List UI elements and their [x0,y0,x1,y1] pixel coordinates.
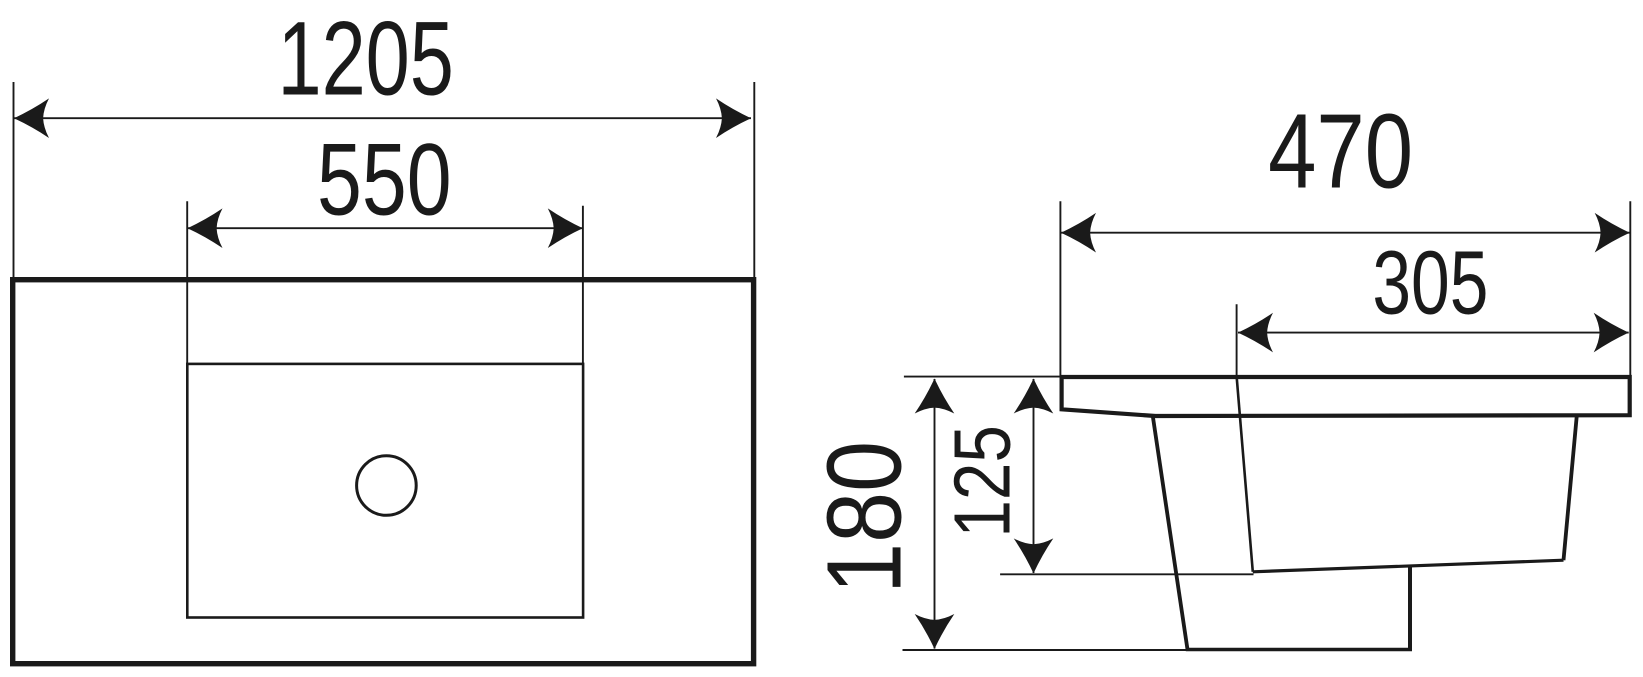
bowl inner left slanted line [1237,379,1253,572]
basin inner bowl rectangle (top view) [187,364,583,618]
bowl bottom line [1253,560,1564,572]
extension line left for dim 1205 [13,82,15,277]
dimension line 305 [1238,313,1629,353]
svg-text:550: 550 [317,122,452,237]
thin reference line at pedestal bottom level [903,649,1187,651]
extension line right for dim 550 [582,206,584,364]
extension line right for dims 470/305 [1629,201,1631,376]
dimension line 125 (vertical) [1014,379,1054,574]
thin reference line at bowl bottom level [1000,573,1253,575]
extension line left for dim 550 [186,201,188,364]
svg-text:180: 180 [806,441,924,594]
thin reference line at rim top level [904,376,1061,378]
svg-text:1205: 1205 [277,1,454,118]
extension line right for dim 1205 [753,82,755,277]
svg-text:125: 125 [938,425,1027,538]
rim slab outline (side view) [1062,377,1630,416]
extension line left for dim 305 [1236,304,1238,378]
svg-text:305: 305 [1372,234,1488,334]
basin outer rectangle (top view) [13,280,754,664]
basin left wall (side view) [1153,416,1188,649]
dimension line 180 (vertical) [915,379,955,650]
dimension line 470 [1061,213,1630,253]
basin right wall (side view) [1564,415,1577,560]
extension line left for dim 470 [1059,201,1061,376]
dimension line 550 [188,208,583,248]
svg-text:470: 470 [1268,93,1413,211]
drain hole circle [357,456,417,516]
pedestal right edge [1408,565,1412,650]
pedestal bottom [1186,648,1412,652]
dimension line 1205 [14,98,751,138]
